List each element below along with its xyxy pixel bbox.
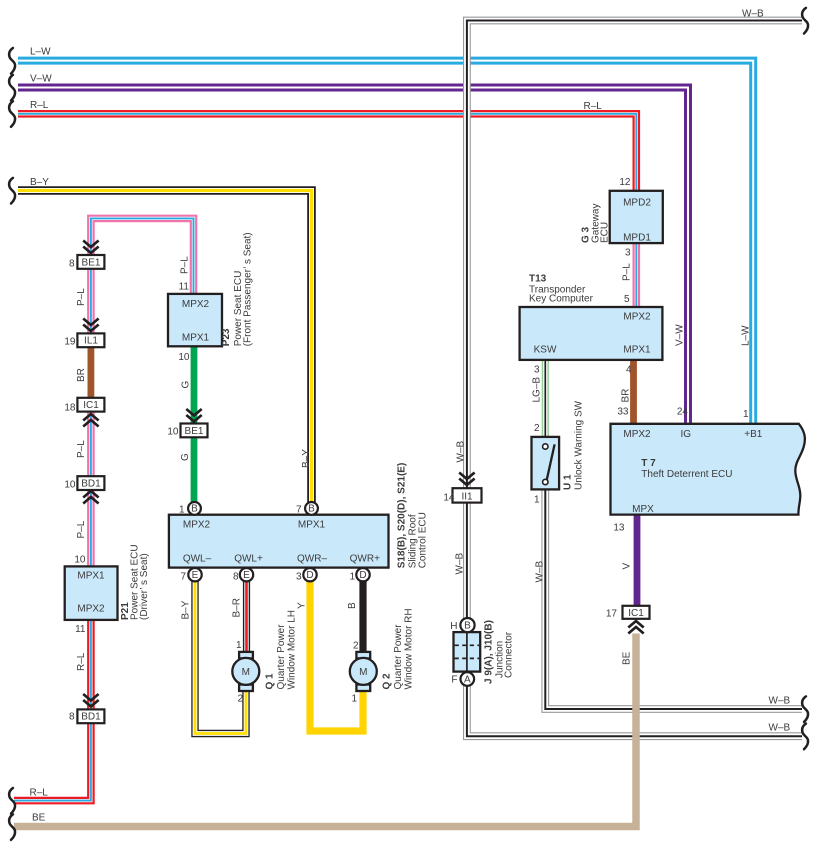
- node E circle (QWL+ pin 8): [240, 568, 253, 581]
- svg-text:1: 1: [179, 505, 185, 516]
- node A circle (junction F): [461, 672, 475, 686]
- brace right W-B low: [802, 724, 808, 750]
- svg-text:Window Motor RH: Window Motor RH: [404, 608, 415, 689]
- brace left R-L: [9, 101, 15, 127]
- svg-text:4: 4: [626, 365, 632, 376]
- brace left L-W: [9, 48, 15, 74]
- svg-text:14: 14: [443, 493, 455, 504]
- wire V T7 MPX to IC1: [634, 514, 641, 607]
- svg-text:B: B: [464, 620, 471, 631]
- svg-text:+B1: +B1: [744, 429, 763, 440]
- wire BE IC1 to left edge: [14, 634, 636, 827]
- svg-text:B: B: [308, 504, 315, 515]
- svg-text:M: M: [242, 667, 250, 678]
- svg-text:(Driver’ s Seat): (Driver’ s Seat): [139, 553, 150, 620]
- svg-text:BE1: BE1: [82, 257, 101, 268]
- node B circle (junction H): [460, 618, 474, 632]
- svg-text:B–Y: B–Y: [301, 449, 312, 468]
- svg-text:Y: Y: [297, 602, 308, 609]
- svg-text:10: 10: [64, 480, 76, 491]
- node B circle (roof ECU pin 1): [188, 502, 201, 515]
- svg-text:2: 2: [237, 694, 243, 705]
- svg-text:W–B: W–B: [456, 441, 467, 463]
- splice chevron down above BD1-8: [83, 694, 98, 707]
- svg-text:MPX1: MPX1: [77, 571, 105, 582]
- svg-text:MPX2: MPX2: [623, 312, 651, 323]
- svg-text:R–L: R–L: [30, 100, 49, 111]
- node D circle (QWR+ pin 1): [356, 568, 369, 581]
- wire Y QWR- to Q2: [310, 581, 363, 732]
- wire G P23 to BE1: [191, 346, 198, 425]
- node E circle (QWL- pin 7): [188, 568, 201, 581]
- svg-text:V–W: V–W: [675, 324, 686, 346]
- svg-text:B: B: [347, 602, 358, 609]
- wire BR IL1 to IC1: [88, 345, 95, 400]
- svg-text:L–W: L–W: [30, 47, 51, 58]
- svg-text:V–W: V–W: [30, 74, 52, 85]
- svg-text:P–L: P–L: [180, 256, 191, 274]
- svg-text:MPX: MPX: [632, 504, 654, 515]
- svg-text:8: 8: [69, 259, 75, 270]
- svg-text:P–L: P–L: [76, 288, 87, 306]
- wire W-B II1 to node B junction: [463, 502, 471, 619]
- svg-text:B–Y: B–Y: [181, 600, 192, 619]
- splice chevron down above II1: [459, 473, 474, 486]
- svg-text:3: 3: [534, 365, 540, 376]
- wire R-L bus to G3: [18, 114, 636, 191]
- svg-text:BE: BE: [622, 651, 633, 665]
- connector BD1 pin 10: [77, 476, 104, 490]
- wire R-L BD1 to left edge: [14, 721, 91, 801]
- connector BE1 pin 10: [181, 424, 208, 438]
- brace left BE: [9, 814, 15, 840]
- connector BD1 pin 8: [77, 709, 104, 723]
- svg-text:QWR–: QWR–: [297, 554, 327, 565]
- wire W-B top bus: [467, 21, 802, 489]
- svg-text:3: 3: [296, 572, 302, 583]
- svg-text:8: 8: [233, 572, 239, 583]
- ECU P23 Power Seat (Front Passenger): [168, 294, 222, 346]
- svg-text:MPX1: MPX1: [182, 333, 210, 344]
- svg-text:33: 33: [617, 407, 629, 418]
- svg-text:Q 1: Q 1: [265, 673, 276, 690]
- svg-text:BR: BR: [76, 368, 87, 382]
- svg-text:W–B: W–B: [742, 9, 764, 20]
- svg-text:R–L: R–L: [76, 652, 87, 671]
- svg-text:B–R: B–R: [232, 598, 243, 617]
- wire LG-B T13 KSW to U1: [542, 359, 549, 438]
- svg-text:BR: BR: [621, 389, 632, 403]
- ECU S18/S20/S21 Sliding Roof Control: [169, 515, 389, 568]
- svg-text:B: B: [191, 504, 198, 515]
- svg-text:IG: IG: [681, 429, 692, 440]
- svg-text:W–B: W–B: [535, 561, 546, 583]
- svg-text:2: 2: [534, 423, 540, 434]
- wire B-Y QWL- to Q1: [195, 581, 246, 734]
- svg-text:T13: T13: [529, 273, 547, 284]
- svg-text:KSW: KSW: [534, 344, 557, 355]
- svg-text:R–L: R–L: [30, 788, 49, 799]
- svg-text:LG–B: LG–B: [532, 377, 543, 403]
- svg-text:11: 11: [179, 282, 190, 293]
- svg-text:BD1: BD1: [81, 479, 101, 490]
- svg-text:H: H: [450, 621, 457, 632]
- wire V-W bus: [18, 88, 688, 425]
- svg-text:1: 1: [236, 640, 242, 651]
- svg-text:T 7: T 7: [641, 458, 656, 469]
- svg-text:BD1: BD1: [81, 712, 101, 723]
- svg-text:L–W: L–W: [741, 325, 752, 346]
- svg-text:B–Y: B–Y: [30, 177, 49, 188]
- splice chevron down above IL1: [83, 319, 98, 332]
- ECU G3 Gateway: [610, 191, 663, 243]
- svg-text:QWL–: QWL–: [183, 554, 212, 565]
- wire B-Y bus: [18, 191, 312, 503]
- svg-text:Window Motor LH: Window Motor LH: [287, 610, 298, 689]
- ECU T7 Theft Deterrent (torn right edge): [611, 424, 805, 515]
- svg-text:E: E: [243, 570, 250, 581]
- svg-text:MPX2: MPX2: [183, 520, 211, 531]
- svg-text:M: M: [359, 667, 367, 678]
- splice chevron up below IC1-18: [83, 414, 98, 427]
- junction connector J9/J10: [454, 632, 481, 672]
- svg-text:U 1: U 1: [563, 474, 574, 490]
- brace left B-Y: [9, 178, 15, 204]
- svg-text:MPX2: MPX2: [182, 299, 210, 310]
- svg-text:P23: P23: [221, 328, 232, 346]
- svg-text:19: 19: [64, 337, 76, 348]
- svg-text:Theft Deterrent ECU: Theft Deterrent ECU: [641, 469, 732, 480]
- svg-text:G: G: [180, 453, 191, 461]
- wire R-L P21 to BD1: [87, 619, 95, 711]
- switch U1 Unlock Warning SW: [532, 437, 560, 490]
- svg-text:J 9(A), J10(B): J 9(A), J10(B): [484, 620, 495, 684]
- svg-text:1: 1: [349, 572, 355, 583]
- brace right W-B mid: [802, 696, 808, 722]
- brace left R-L bottom: [9, 788, 15, 814]
- wire P-L left column to P23: [91, 218, 194, 295]
- svg-text:Q 2: Q 2: [382, 673, 393, 690]
- svg-text:24: 24: [677, 407, 689, 418]
- node D circle (QWR- pin 3): [303, 568, 316, 581]
- svg-text:MPX1: MPX1: [298, 520, 326, 531]
- svg-text:10: 10: [167, 427, 179, 438]
- svg-text:MPD2: MPD2: [623, 198, 651, 209]
- wire B QWR+ to Q2: [359, 581, 366, 653]
- svg-text:17: 17: [606, 609, 618, 620]
- svg-text:Quarter Power: Quarter Power: [393, 624, 404, 690]
- wire W-B node A to right edge: [467, 685, 802, 736]
- svg-text:D: D: [306, 570, 313, 581]
- svg-text:MPX1: MPX1: [623, 344, 651, 355]
- svg-text:G: G: [181, 381, 192, 389]
- svg-text:V: V: [622, 563, 633, 570]
- connector II1 pin 14: [453, 488, 482, 502]
- svg-text:A: A: [464, 674, 471, 685]
- connector IC1 pin 18: [77, 398, 104, 412]
- svg-text:IC1: IC1: [628, 608, 644, 619]
- wire G BE1 to node B: [191, 437, 198, 503]
- wire W-B U1 to right edge: [545, 489, 802, 710]
- svg-text:1: 1: [351, 694, 357, 705]
- svg-text:F: F: [451, 675, 457, 686]
- connector BE1 pin 8: [77, 255, 104, 269]
- motor Q2 Quarter Power Window RH: [350, 652, 377, 691]
- splice chevron down above BE1-8: [83, 241, 98, 254]
- svg-text:MPX2: MPX2: [623, 429, 651, 440]
- svg-text:Quarter Power: Quarter Power: [276, 624, 287, 690]
- connector IC1 pin 17: [623, 606, 650, 619]
- svg-text:D: D: [359, 570, 366, 581]
- wire P-L BE1 to IL1: [87, 268, 95, 334]
- splice chevron down above BE1-10: [186, 409, 201, 422]
- svg-text:11: 11: [75, 624, 86, 635]
- svg-text:ECU: ECU: [600, 222, 611, 243]
- svg-text:10: 10: [74, 555, 86, 566]
- splice chevron up below BD1-10: [83, 491, 98, 504]
- svg-text:QWR+: QWR+: [350, 554, 380, 565]
- svg-text:1: 1: [534, 495, 540, 506]
- brace right W-B top: [802, 8, 808, 34]
- svg-text:3: 3: [625, 248, 631, 259]
- svg-text:7: 7: [180, 572, 186, 583]
- svg-text:S18(B), S20(D), S21(E): S18(B), S20(D), S21(E): [397, 463, 408, 569]
- svg-text:Unlock Warning SW: Unlock Warning SW: [574, 400, 585, 490]
- node B circle (roof ECU pin 7): [305, 502, 318, 515]
- wire BR T13 MPX1 to T7: [630, 359, 637, 425]
- svg-text:IC1: IC1: [83, 400, 99, 411]
- svg-text:QWL+: QWL+: [234, 554, 263, 565]
- svg-text:W–B: W–B: [769, 696, 791, 707]
- connector IL1 pin 19: [77, 333, 104, 347]
- svg-text:II1: II1: [461, 492, 473, 503]
- splice chevron up below IC1-17: [628, 621, 643, 634]
- svg-text:Key Computer: Key Computer: [529, 294, 594, 305]
- svg-text:(Front Passenger’ s Seat): (Front Passenger’ s Seat): [243, 232, 254, 346]
- svg-text:18: 18: [64, 403, 76, 414]
- svg-text:2: 2: [353, 641, 359, 652]
- svg-text:12: 12: [619, 177, 631, 188]
- ECU T13 Transponder Key Computer: [520, 307, 663, 360]
- svg-text:W–B: W–B: [455, 553, 466, 575]
- svg-text:P–L: P–L: [622, 263, 633, 281]
- svg-text:BE: BE: [32, 813, 46, 824]
- wire L-W bus: [18, 61, 753, 424]
- svg-text:Control ECU: Control ECU: [418, 512, 429, 568]
- wire B-R QWL+ to Q1: [243, 581, 250, 653]
- svg-text:MPX2: MPX2: [77, 604, 105, 615]
- svg-text:Connector: Connector: [504, 631, 515, 678]
- ECU P21 Power Seat (Driver): [65, 566, 118, 620]
- brace left V-W: [9, 75, 15, 101]
- svg-text:10: 10: [178, 352, 190, 363]
- svg-text:BE1: BE1: [185, 426, 204, 437]
- wire P-L IC1 to BD1: [87, 411, 95, 478]
- svg-text:7: 7: [296, 505, 302, 516]
- svg-text:P–L: P–L: [76, 520, 87, 538]
- svg-text:1: 1: [743, 409, 749, 420]
- svg-text:13: 13: [613, 523, 625, 534]
- svg-text:E: E: [192, 570, 199, 581]
- svg-text:8: 8: [69, 712, 75, 723]
- svg-text:MPD1: MPD1: [623, 233, 651, 244]
- svg-text:P–L: P–L: [76, 440, 87, 458]
- wire P-L BD1 to P21: [87, 488, 95, 568]
- svg-text:5: 5: [624, 294, 630, 305]
- motor Q1 Quarter Power Window LH: [232, 652, 259, 691]
- svg-text:IL1: IL1: [84, 336, 98, 347]
- svg-text:R–L: R–L: [584, 101, 603, 112]
- svg-text:W–B: W–B: [769, 723, 791, 734]
- wire P-L G3 to T13: [632, 243, 640, 308]
